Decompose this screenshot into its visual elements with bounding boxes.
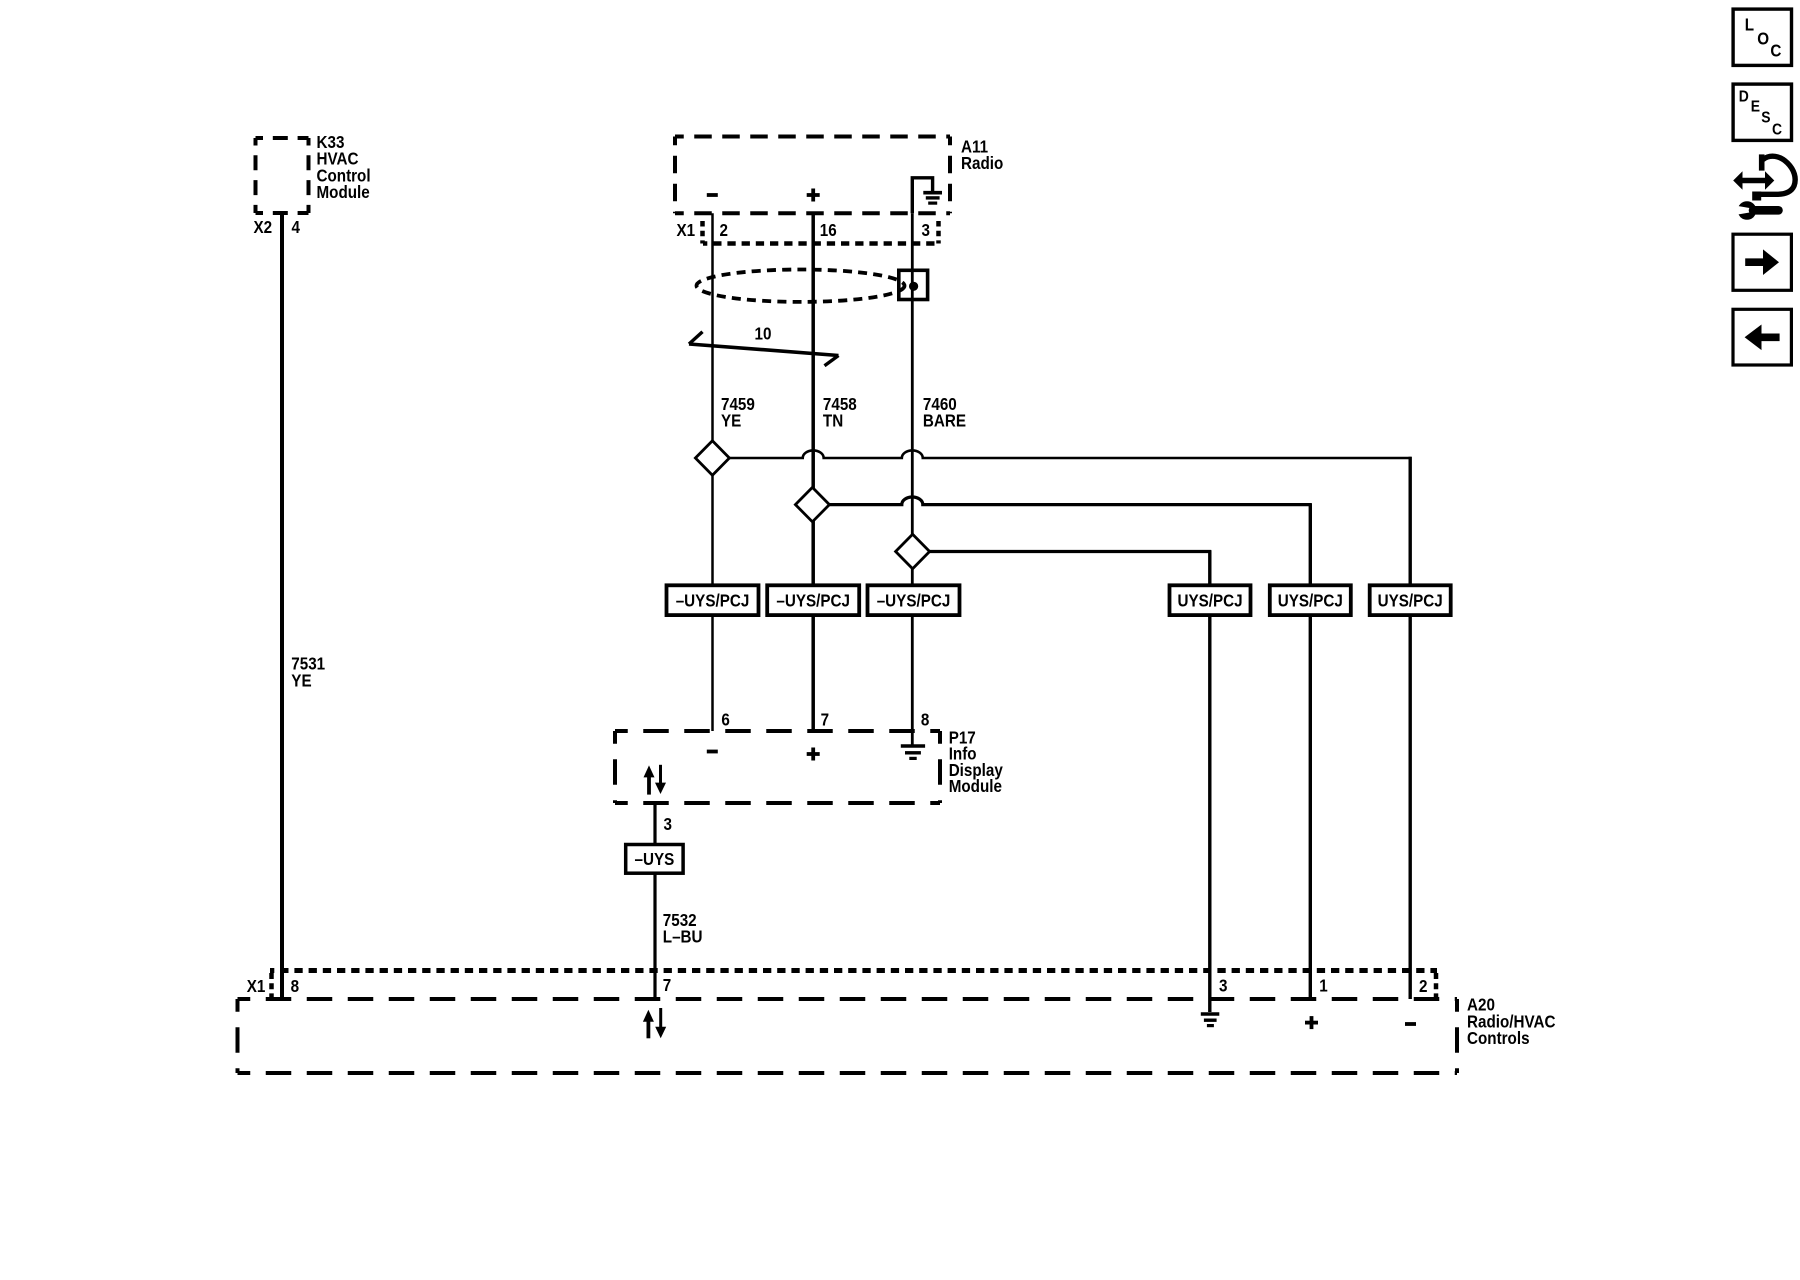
svg-text:16: 16 [820,221,837,240]
wire 7459 YE (A11 X1-2 down to P17 pin 6) [711,213,714,731]
inline connector UYS/PCJ (A20 pin 3 wire) [1170,585,1251,615]
label A20 Radio/HVAC Controls [1467,996,1556,1049]
svg-text:E: E [1751,97,1760,115]
module P17 Info Display Module (dashed box) [615,731,940,803]
svg-text:6: 6 [721,710,729,729]
svg-text:UYS/PCJ: UYS/PCJ [1278,591,1343,610]
module A20 Radio/HVAC Controls (dashed box) [238,999,1458,1073]
svg-text:7: 7 [821,710,829,729]
svg-text:X2: X2 [254,218,273,237]
label P17 Info Display Module [949,728,1004,796]
inline connector -UYS (wire 7532) [626,845,683,874]
splice diamond S1 on wire 7459 [695,441,729,475]
option leader 10 [689,332,839,366]
wire 7458 TN (A11 X1-16 down to P17 pin 7) [811,213,815,731]
svg-text:Radio: Radio [961,154,1003,173]
svg-text:BARE: BARE [923,411,966,430]
connector label X2 pin 4 (K33) [254,218,301,237]
svg-text:1: 1 [1319,977,1327,996]
wire label 7531 YE [291,655,325,691]
svg-text:YE: YE [291,671,311,690]
plus pin symbol (A20 pin 1) [1305,1016,1318,1029]
svg-text:Controls: Controls [1467,1029,1530,1048]
svg-text:X1: X1 [247,977,266,996]
svg-text:C: C [1772,120,1782,138]
connector X1 end stub left [700,221,705,244]
inline connector UYS/PCJ (A20 pin 2 wire) [1370,585,1451,615]
plus pin symbol (P17 pin 7) [807,748,820,761]
serial data up arrow (P17) [644,765,655,794]
connector X1 end stub right [936,221,941,244]
svg-text:10: 10 [755,324,772,343]
svg-text:–UYS/PCJ: –UYS/PCJ [877,591,951,610]
pin labels 6 7 8 (P17) [721,710,929,729]
icon harness repair (double arrow, hook arrow, wrench) [1733,154,1795,219]
internal ground symbol (A20 pin 3) [1201,1014,1220,1026]
svg-text:–UYS: –UYS [635,850,675,869]
serial data down arrow (A20 pin 7) [655,1008,666,1038]
module K33 HVAC Control Module (dashed box) [256,138,309,213]
svg-text:8: 8 [291,977,299,996]
wire 7531 YE (K33 X2-4 to A20 X1-8) [280,213,284,999]
svg-text:–UYS/PCJ: –UYS/PCJ [676,591,750,610]
wire 7460 BARE (A11 X1-3 down to P17 pin 8 ground) [911,213,914,744]
svg-text:–UYS/PCJ: –UYS/PCJ [776,591,850,610]
svg-text:UYS/PCJ: UYS/PCJ [1177,591,1242,610]
svg-text:TN: TN [823,411,843,430]
wire drop to UYS/PCJ 6 (A20 pin 2) [1408,457,1411,999]
serial data up arrow (A20 pin 7) [643,1010,654,1039]
shield drain dot [909,282,918,291]
svg-text:L–BU: L–BU [663,928,703,947]
svg-text:Module: Module [949,777,1002,796]
wire label 7460 BARE [923,395,966,431]
svg-text:S: S [1761,109,1770,127]
svg-text:4: 4 [292,218,301,237]
minus pin symbol (A20 pin 2) [1405,1022,1416,1026]
inline connector -UYS/PCJ (wire 7460) [868,585,960,615]
svg-text:UYS/PCJ: UYS/PCJ [1378,591,1443,610]
svg-text:3: 3 [664,815,672,834]
label X1 and pins 8 7 3 1 2 (A20) [247,976,1428,996]
svg-text:D: D [1739,87,1749,105]
svg-text:7: 7 [663,976,671,995]
inline connector -UYS/PCJ (wire 7459) [667,585,759,615]
svg-text:2: 2 [1419,977,1427,996]
internal ground symbol (P17 pin 8) [901,746,925,758]
net line 2 (splice S2 to A20 pin1 drop) with hop [830,497,1312,505]
wire label 7532 L-BU [663,911,703,947]
net line 1 (splice S1 to A20 pin2 drop) with hops [728,450,1412,458]
wire label 7458 TN [823,395,857,431]
label X1 and pins 2 16 3 (A11) [677,221,930,240]
shield termination box on wire 7460 [899,270,928,299]
connector X1 row of A11 (dotted line) [703,241,939,246]
plus pin symbol (A11 pin 16) [807,189,820,202]
connector X1 end stub left (A20) [269,973,274,998]
inline connector UYS/PCJ (A20 pin 1 wire) [1270,585,1351,615]
icon prev-page (left arrow box) [1733,309,1791,365]
svg-text:3: 3 [1219,977,1227,996]
splice diamond S3 on wire 7460 [896,534,930,568]
svg-text:8: 8 [921,710,929,729]
svg-text:Module: Module [317,183,370,202]
internal ground symbol (A11 pin 3) [912,178,942,214]
connector X1 row of A20 (dotted line) [270,968,1437,973]
icon LOC box [1733,9,1791,65]
label A11 Radio [961,138,1003,174]
icon next-page (right arrow box) [1733,234,1791,290]
serial data down arrow (P17) [655,765,666,794]
net line 3 (splice S3 to A20 pin3 drop) [930,550,1212,553]
icon DESC box [1733,84,1791,140]
svg-text:C: C [1770,41,1781,60]
module A11 Radio (dashed box) [675,137,950,214]
splice diamond S2 on wire 7458 [795,487,829,521]
minus pin symbol (P17 pin 6) [707,750,718,754]
wire from P17 pin 3 [653,803,656,999]
twisted/shielded pair ellipse [697,270,905,302]
svg-text:YE: YE [721,411,741,430]
svg-text:O: O [1757,29,1769,48]
wire drop to UYS/PCJ 4 (A20 pin 3 ground) [1208,550,1211,1012]
svg-text:L: L [1745,16,1754,35]
wire drop to UYS/PCJ 5 (A20 pin 1) [1309,503,1312,999]
svg-text:X1: X1 [677,221,696,240]
wire label 7459 YE [721,395,755,431]
minus pin symbol (A11 pin 2) [707,193,718,197]
label K33 HVAC Control Module [317,133,371,202]
svg-text:3: 3 [922,221,930,240]
inline connector -UYS/PCJ (wire 7458) [767,585,859,615]
svg-text:2: 2 [720,221,728,240]
connector X1 end stub right (A20) [1434,973,1439,998]
